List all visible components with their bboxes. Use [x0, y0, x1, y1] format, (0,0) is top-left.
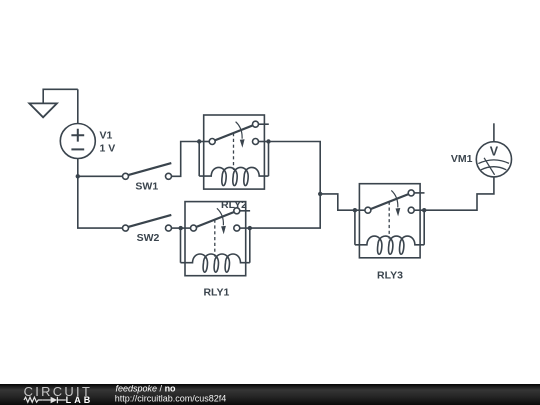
svg-text:V1: V1 [100, 130, 113, 142]
node RLY1 coil left junction [179, 226, 183, 230]
node RLY1 coil right junction [248, 226, 252, 230]
svg-text:http://circuitlab.com/cus82f4: http://circuitlab.com/cus82f4 [115, 393, 227, 403]
wire RLY3 right to VM1 [424, 177, 494, 210]
wire junction down to SW2 [78, 176, 123, 228]
switch SW1 [123, 163, 172, 179]
node junction V1/SW1/SW2 [76, 174, 80, 178]
voltage source V1 [60, 124, 95, 159]
relay RLY2 [199, 115, 269, 189]
node RLY2 coil right junction [266, 139, 270, 143]
wire SW2 to RLY1 left [172, 227, 181, 229]
svg-text:SW2: SW2 [137, 232, 160, 244]
svg-text:LAB: LAB [66, 395, 94, 405]
CircuitLab logo resistor-diode glyph [24, 397, 66, 403]
node middle junction [318, 192, 322, 196]
svg-text:RLY3: RLY3 [377, 270, 403, 282]
node RLY3 coil left junction [353, 208, 357, 212]
voltmeter VM1 [476, 142, 511, 177]
ground [29, 89, 78, 117]
svg-text:feedspoke / no: feedspoke / no [116, 384, 177, 393]
wire VM1 top stub [493, 123, 495, 141]
relay RLY3 [355, 184, 425, 258]
wire SW1 to RLY2 left [172, 142, 200, 177]
node RLY3 coil right junction [422, 208, 426, 212]
svg-text:VM1: VM1 [451, 153, 473, 165]
wire V1 bottom to junction [77, 159, 79, 177]
wire RLY1 right to middle junction [250, 194, 320, 228]
node RLY2 coil left junction [197, 139, 201, 143]
wire middle junction to RLY3 left [320, 194, 355, 210]
svg-text:1 V: 1 V [100, 143, 116, 155]
wire RLY2 right to middle junction [269, 142, 321, 194]
svg-text:V: V [490, 144, 499, 158]
wire junction to SW1 [78, 175, 123, 177]
switch SW2 [123, 215, 172, 231]
svg-text:RLY1: RLY1 [203, 287, 229, 299]
relay RLY1 [181, 202, 251, 276]
svg-text:SW1: SW1 [135, 180, 158, 192]
wire ground to V1 top [77, 89, 79, 123]
